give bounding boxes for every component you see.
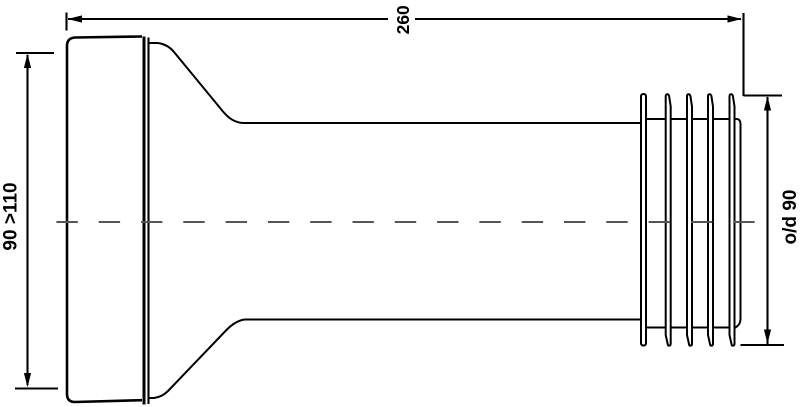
svg-text:90 >110: 90 >110 <box>1 182 22 250</box>
fin 2 (seal lip) <box>666 94 671 345</box>
dimension 260: right arrowhead <box>728 15 742 22</box>
top taper and pipe top edge <box>149 43 641 123</box>
dimension o/d 90: up arrowhead <box>764 96 771 110</box>
spigot bottom surface lines between fins <box>647 327 736 329</box>
dimension 260: horizontal line right segment <box>415 18 741 20</box>
dimension 90>110: vertical line <box>26 55 28 385</box>
dimension 260: left extension tick <box>65 13 67 31</box>
centerline (dashed axis, drawn over part) <box>56 221 754 223</box>
dimension o/d 90: top extension tick <box>744 94 783 96</box>
dimension 90>110: top extension tick <box>16 52 54 54</box>
fin 4 (seal lip) <box>708 94 713 345</box>
dimension 260: right extension line down to spigot end <box>742 13 744 96</box>
flange rim thin line <box>147 38 149 405</box>
bottom taper and pipe bottom edge <box>149 320 640 399</box>
dimension o/d 90: bottom extension tick <box>741 344 785 346</box>
dimension o/d 90: vertical line <box>766 97 768 344</box>
dimension o/d 90: down arrowhead <box>764 330 771 344</box>
dimension 90>110: up arrowhead <box>24 54 31 68</box>
fin 3 (seal lip) <box>687 94 692 345</box>
fin 5 (seal lip) <box>730 94 735 345</box>
dimension 90>110: bottom extension tick <box>15 387 58 389</box>
dimension 90>110: label text <box>1 182 22 250</box>
svg-text:260: 260 <box>393 5 413 34</box>
svg-text:o/d 90: o/d 90 <box>780 190 800 245</box>
dimension 260: left arrowhead <box>68 15 83 22</box>
pipe end face <box>736 119 741 328</box>
fin 1 (stop ring) <box>641 94 646 346</box>
dimension 260: label text <box>393 5 413 34</box>
flange cup outline <box>67 37 142 403</box>
flange rim thick line <box>143 37 146 405</box>
dimension 90>110: down arrowhead <box>24 373 31 387</box>
spigot top surface lines between fins <box>647 118 738 120</box>
dimension 260: horizontal line left segment <box>68 18 388 20</box>
dimension o/d 90: label text <box>780 190 800 245</box>
